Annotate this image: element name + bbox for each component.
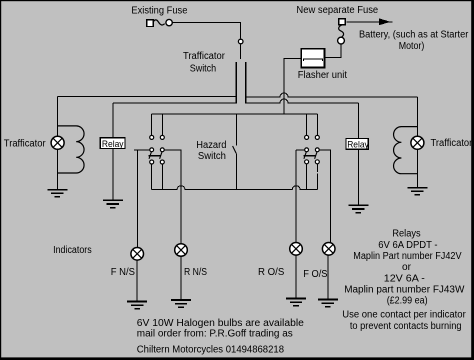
svg-text:F O/S: F O/S xyxy=(303,269,328,280)
trafficator switch S1 left contact bar xyxy=(235,62,237,104)
ground: right relay xyxy=(348,205,368,212)
svg-text:New separate Fuse: New separate Fuse xyxy=(296,5,378,16)
svg-text:Use one contact per indicator: Use one contact per indicator xyxy=(342,310,466,321)
fuse F1 "Existing Fuse" holder square xyxy=(147,20,153,27)
ground: left trafficator xyxy=(47,190,67,197)
svg-text:Chiltern Motorcycles 014948682: Chiltern Motorcycles 01494868218 xyxy=(137,345,285,356)
hazard switch left pole B lever xyxy=(160,152,163,159)
hazard switch right pole B middle contact xyxy=(315,148,319,152)
wire: battery feed arrow shaft xyxy=(346,21,392,23)
switch: hazard master pole wire upper xyxy=(236,114,238,146)
ground: F O/S xyxy=(318,300,338,307)
hazard switch right pole B: stub from top bus xyxy=(316,114,318,135)
ground: R O/S xyxy=(286,299,306,306)
wire: bus to right trafficator (y=97) with hop over flasher wire xyxy=(246,93,417,97)
wire: left pole B lower contact to bottom bus xyxy=(161,164,163,190)
wire: right relay feed down xyxy=(357,103,359,205)
svg-text:to prevent contacts burning: to prevent contacts burning xyxy=(350,321,462,332)
lamp: F O/S indicator xyxy=(322,243,335,256)
wire: new fuse down to flasher unit input xyxy=(325,44,341,57)
fuse F1 bullet connector xyxy=(166,19,172,25)
svg-text:Switch: Switch xyxy=(198,151,226,162)
wire: feed to R N/S lamp xyxy=(164,150,181,244)
hazard switch right pole A lower contact xyxy=(305,160,309,164)
svg-text:Trafficator: Trafficator xyxy=(431,138,473,149)
hazard switch left pole A: stub from top bus xyxy=(151,114,153,135)
wire: bus to right relay (y=103) with hop over flasher wire xyxy=(246,99,358,103)
hazard switch left pole A middle contact xyxy=(150,148,154,152)
trafficator switch S1 right contact bar xyxy=(245,62,247,104)
arrow head to battery xyxy=(379,18,391,25)
svg-text:(£2.99 ea): (£2.99 ea) xyxy=(387,296,428,307)
coil: left trafficator coil xyxy=(57,126,84,173)
wire: right trafficator feed down xyxy=(416,97,418,136)
ground: right trafficator xyxy=(407,188,427,195)
svg-text:Existing Fuse: Existing Fuse xyxy=(131,5,187,16)
svg-text:F N/S: F N/S xyxy=(111,267,136,278)
lamp: right trafficator bulb xyxy=(411,136,424,149)
svg-text:mail order from: P.R.Goff trad: mail order from: P.R.Goff trading as xyxy=(137,328,293,339)
svg-text:Relay: Relay xyxy=(102,139,124,150)
svg-text:Trafficator: Trafficator xyxy=(183,51,226,62)
wire: hazard bottom bus with hops over lamp feeds xyxy=(152,186,318,190)
fuse F2 wavy element xyxy=(339,25,344,37)
svg-text:Maplin Part number FJ42V: Maplin Part number FJ42V xyxy=(353,251,462,262)
relay K2 box xyxy=(346,138,368,149)
hazard switch right pole B lever xyxy=(315,152,318,159)
wire: hazard top bus (y=114) xyxy=(152,113,318,115)
svg-text:R N/S: R N/S xyxy=(184,267,207,278)
wire: R O/S lamp to ground xyxy=(295,255,297,298)
lamp: R O/S indicator xyxy=(290,243,303,256)
switch: hazard master lever xyxy=(233,146,237,153)
wire: right pole A lower contact to bottom bus xyxy=(306,164,308,190)
hazard switch right pole A: stub from top bus xyxy=(306,114,308,135)
hazard switch left pole A top contact xyxy=(150,135,154,139)
ground: R N/S xyxy=(171,300,191,307)
hazard switch right pole A lever xyxy=(304,152,307,159)
wire: left pole A lower contact to bottom bus xyxy=(151,164,153,190)
wire: right trafficator to ground xyxy=(416,149,418,187)
node: connector bullet on pole wire xyxy=(238,39,243,44)
wire: bus to left trafficator (y=96.5) xyxy=(57,96,236,98)
svg-text:Indicators: Indicators xyxy=(53,245,92,256)
ground: F N/S xyxy=(127,302,147,309)
wire: existing fuse output to trafficator switch pole xyxy=(172,22,240,59)
hazard switch left pole A lower contact xyxy=(150,160,154,164)
svg-text:12V 6A -: 12V 6A - xyxy=(384,273,425,284)
fuse F2 bullet connector xyxy=(338,37,345,44)
wire: feed to F O/S lamp xyxy=(319,150,330,244)
wire: right pole B lower contact to bottom bus (with gap) xyxy=(316,164,318,190)
hazard switch left pole A lever xyxy=(149,152,152,159)
svg-text:Motor): Motor) xyxy=(399,41,425,52)
wire: flasher unit output, down to hazard bus xyxy=(284,59,301,114)
wire: F O/S lamp to ground xyxy=(327,255,329,299)
hazard switch left pole B: stub from top bus xyxy=(161,114,163,135)
wire: feed to R O/S lamp xyxy=(296,150,304,243)
ground: left relay xyxy=(103,200,123,207)
lamp: left trafficator bulb xyxy=(51,136,64,149)
svg-text:Battery, (such as at Starter: Battery, (such as at Starter xyxy=(359,30,469,41)
hazard switch right pole B lower contact xyxy=(315,160,319,164)
svg-text:Maplin part number FJ43W: Maplin part number FJ43W xyxy=(344,285,465,296)
hazard switch left pole B middle contact xyxy=(160,148,164,152)
wire: left relay feed down xyxy=(112,103,114,200)
hazard switch right pole B top contact xyxy=(315,135,319,139)
hazard switch right mechanical link xyxy=(304,155,316,157)
fuse F1 wavy element xyxy=(153,20,165,25)
lamp: F N/S indicator xyxy=(131,248,144,261)
svg-text:Switch: Switch xyxy=(190,64,217,75)
lamp: R N/S indicator xyxy=(175,244,188,257)
relay K1 box xyxy=(100,138,125,149)
svg-text:Relays: Relays xyxy=(392,229,420,240)
svg-text:Relay: Relay xyxy=(347,140,369,151)
switch: hazard master pole wire lower xyxy=(236,154,238,190)
hazard switch left mechanical link xyxy=(149,155,161,157)
note: halogen bulbs availability text xyxy=(137,318,305,356)
hazard switch left pole B top contact xyxy=(160,135,164,139)
svg-text:Flasher unit: Flasher unit xyxy=(298,70,347,81)
wire: feed to F N/S lamp xyxy=(134,150,150,248)
hazard switch right pole A top contact xyxy=(305,135,309,139)
coil: right trafficator coil xyxy=(394,127,418,174)
note: relays specification text xyxy=(342,229,466,332)
hazard switch left pole B lower contact xyxy=(160,160,164,164)
wire: left trafficator to ground xyxy=(56,149,58,189)
hazard switch right pole A middle contact xyxy=(305,148,309,152)
wire: F N/S lamp to ground xyxy=(136,260,138,301)
svg-text:6V 6A DPDT -: 6V 6A DPDT - xyxy=(378,240,437,251)
svg-text:R O/S: R O/S xyxy=(258,267,285,278)
svg-text:or: or xyxy=(402,262,412,273)
flasher unit U1 box xyxy=(301,49,324,68)
fuse F2 "New separate Fuse" holder square xyxy=(339,19,346,25)
flasher unit bimetal element xyxy=(303,59,322,61)
svg-text:Hazard: Hazard xyxy=(196,140,226,151)
wire: bus to left relay (y=103) xyxy=(113,102,236,104)
wire: R N/S lamp to ground xyxy=(180,256,182,299)
wire: left trafficator feed down xyxy=(56,97,58,137)
svg-text:Trafficator: Trafficator xyxy=(4,139,46,150)
